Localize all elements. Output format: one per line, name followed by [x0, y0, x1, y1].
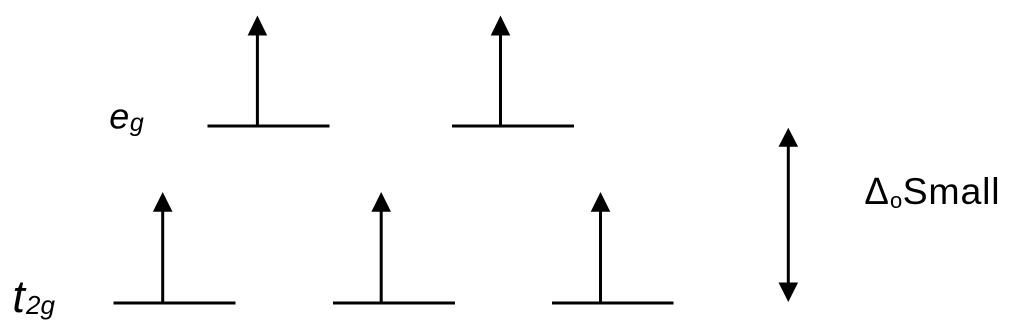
svg-text:t2g: t2g [12, 271, 55, 322]
svg-text:eg: eg [109, 96, 144, 138]
svg-text:ΔoSmall: ΔoSmall [864, 170, 1000, 213]
